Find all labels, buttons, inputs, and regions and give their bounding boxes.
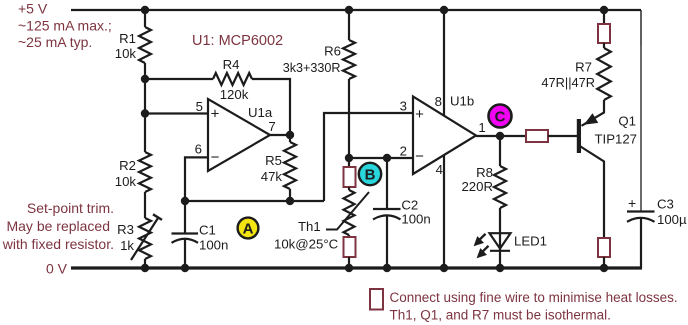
wire Q1 collector to 0V	[603, 257, 605, 268]
fine-wire marker in base lead	[526, 130, 548, 142]
svg-text:−: −	[415, 148, 424, 165]
label R8 value	[461, 165, 493, 194]
label Th1 value	[274, 219, 339, 252]
wire U1b pin8 to +5V	[443, 10, 445, 116]
svg-text:Set-point trim.: Set-point trim.	[27, 200, 114, 216]
svg-text:8: 8	[435, 94, 442, 109]
svg-text:Th1: Th1	[298, 219, 321, 234]
fine-wire marker above Th1	[344, 167, 356, 187]
label R5 value	[261, 153, 283, 184]
op-amp U1b	[413, 97, 476, 175]
svg-text:100µ: 100µ	[657, 212, 687, 227]
svg-text:R4: R4	[223, 57, 240, 72]
svg-text:TIP127: TIP127	[594, 132, 637, 147]
label R3 value	[117, 222, 134, 253]
wire R8 top lead	[499, 136, 501, 166]
fine-wire marker below Q1	[598, 238, 610, 257]
capacitor C3	[627, 195, 655, 268]
wire Th1 bottom lead	[348, 257, 350, 268]
wire R5 bottom lead	[289, 189, 291, 201]
capacitor C1	[172, 201, 199, 268]
wire feedback node line	[185, 200, 324, 202]
svg-text:6: 6	[195, 142, 202, 157]
fine-wire marker above R7	[598, 24, 610, 43]
svg-text:R8: R8	[476, 165, 493, 180]
pin 4	[436, 162, 443, 177]
svg-text:5: 5	[196, 99, 203, 114]
node C	[489, 105, 512, 128]
wire U1b pin2 input	[349, 157, 413, 159]
svg-text:−: −	[211, 149, 220, 166]
wire Th1 top lead	[348, 158, 350, 167]
svg-text:R2: R2	[119, 158, 136, 173]
net +5V annotation	[18, 1, 112, 51]
resistor R3 (trimmer)	[131, 214, 162, 268]
svg-text:1k: 1k	[120, 238, 134, 253]
wire U1b pin4 to 0V	[443, 155, 445, 268]
wire U1b output	[476, 135, 526, 137]
svg-text:C: C	[495, 109, 506, 126]
wire R4 left lead from node	[145, 78, 213, 80]
svg-text:7: 7	[268, 119, 275, 134]
pin 8	[435, 94, 442, 109]
svg-text:B: B	[365, 167, 376, 184]
label U1a	[248, 105, 273, 120]
svg-text:R6: R6	[324, 44, 341, 59]
pin 7	[268, 119, 275, 134]
svg-text:47R||47R: 47R||47R	[541, 75, 595, 90]
label C2 value	[401, 198, 430, 227]
wire R7 top lead	[603, 10, 605, 24]
svg-text:4: 4	[436, 162, 443, 177]
svg-text:U1a: U1a	[248, 105, 273, 120]
label C1 value	[199, 223, 228, 253]
svg-text:~125 mA max.;: ~125 mA max.;	[18, 18, 112, 34]
legend note	[390, 290, 678, 323]
resistor R1	[139, 27, 151, 63]
wire U1a pin6 input	[185, 157, 208, 201]
pin 3	[400, 99, 407, 114]
pin 5	[196, 99, 203, 114]
net 0V annotation	[46, 261, 68, 277]
label R6 value	[283, 44, 341, 76]
node B	[359, 163, 381, 185]
svg-text:10k: 10k	[115, 174, 137, 189]
svg-text:2: 2	[400, 144, 407, 159]
label LED1	[514, 234, 547, 249]
label U1 device	[192, 33, 283, 49]
svg-text:100n: 100n	[199, 238, 228, 253]
pin 1	[478, 120, 485, 135]
resistor R4	[213, 73, 252, 85]
wire R6 bottom lead	[348, 79, 350, 158]
thermistor Th1	[326, 187, 369, 237]
wire U1a pin5 input	[145, 112, 208, 114]
svg-text:R3: R3	[117, 222, 134, 237]
svg-text:with fixed resistor.: with fixed resistor.	[2, 236, 114, 252]
label R2 value	[115, 158, 137, 189]
R3 note	[2, 200, 114, 252]
svg-text:C1: C1	[199, 223, 216, 238]
LED LED1	[474, 232, 511, 258]
wire R2 to R3	[144, 192, 146, 218]
wire R8 to LED1	[499, 208, 501, 233]
svg-text:220R: 220R	[461, 179, 493, 194]
svg-text:U1b: U1b	[450, 94, 474, 109]
resistor R5	[284, 142, 296, 189]
wire R7 to Q1 emitter with arrow	[582, 100, 605, 126]
svg-text:R1: R1	[119, 31, 136, 46]
wire up to U1b pin3	[324, 113, 413, 201]
svg-text:1: 1	[478, 120, 485, 135]
wire R1 top lead	[144, 10, 146, 27]
svg-text:R7: R7	[575, 60, 592, 75]
resistor R6	[343, 40, 355, 79]
svg-text:0 V: 0 V	[46, 261, 68, 277]
svg-text:LED1: LED1	[514, 234, 547, 249]
label R4 value	[220, 57, 249, 102]
pin 2	[400, 144, 407, 159]
pin 6	[195, 142, 202, 157]
wire R6 top lead	[348, 10, 350, 40]
label R1 value	[115, 31, 137, 61]
wire U1a output	[270, 134, 290, 136]
svg-text:Q1: Q1	[618, 114, 636, 129]
svg-text:10k: 10k	[115, 46, 137, 61]
wire +5V top rail	[71, 9, 641, 11]
fine-wire marker below Th1	[344, 237, 356, 257]
node A	[238, 218, 259, 239]
label Q1 type	[594, 114, 637, 147]
wire R1 bottom to node	[144, 63, 146, 152]
svg-text:~25 mA typ.: ~25 mA typ.	[18, 34, 92, 50]
svg-text:+: +	[211, 106, 220, 123]
svg-text:C3: C3	[657, 197, 674, 212]
svg-text:10k@25°C: 10k@25°C	[274, 237, 339, 252]
svg-text:U1: MCP6002: U1: MCP6002	[192, 33, 283, 49]
svg-text:R5: R5	[265, 153, 282, 168]
wire LED1 to 0V	[499, 251, 501, 268]
resistor R2	[139, 152, 151, 192]
svg-text:+5 V: +5 V	[18, 1, 48, 17]
svg-text:3k3+330R: 3k3+330R	[283, 61, 341, 75]
svg-text:A: A	[243, 221, 254, 238]
svg-text:Th1, Q1, and R7 must be isothe: Th1, Q1, and R7 must be isothermal.	[390, 308, 611, 323]
svg-text:47k: 47k	[261, 169, 283, 184]
wire R4 right lead down to U1a output	[252, 79, 290, 135]
transistor Q1	[577, 119, 604, 238]
legend fine-wire marker	[370, 289, 383, 310]
label U1b	[450, 94, 474, 109]
svg-text:+: +	[415, 106, 424, 123]
op-amp U1a	[208, 99, 270, 171]
svg-text:C2: C2	[401, 198, 418, 213]
svg-text:3: 3	[400, 99, 407, 114]
wire +5V down right side	[640, 10, 642, 212]
svg-text:+: +	[628, 195, 636, 211]
resistor R7	[597, 43, 611, 100]
svg-text:May be replaced: May be replaced	[6, 218, 110, 234]
label C3 value	[657, 197, 687, 228]
resistor R8	[494, 166, 506, 208]
label R7 value	[541, 60, 595, 91]
svg-text:Connect using fine wire to min: Connect using fine wire to minimise heat…	[390, 290, 678, 305]
svg-text:100n: 100n	[401, 212, 430, 227]
wire R5 top lead	[289, 135, 291, 142]
capacitor C2	[373, 158, 401, 268]
wire to Q1 base	[548, 135, 577, 137]
svg-text:120k: 120k	[220, 87, 249, 102]
wire 0V bottom rail	[71, 266, 642, 269]
